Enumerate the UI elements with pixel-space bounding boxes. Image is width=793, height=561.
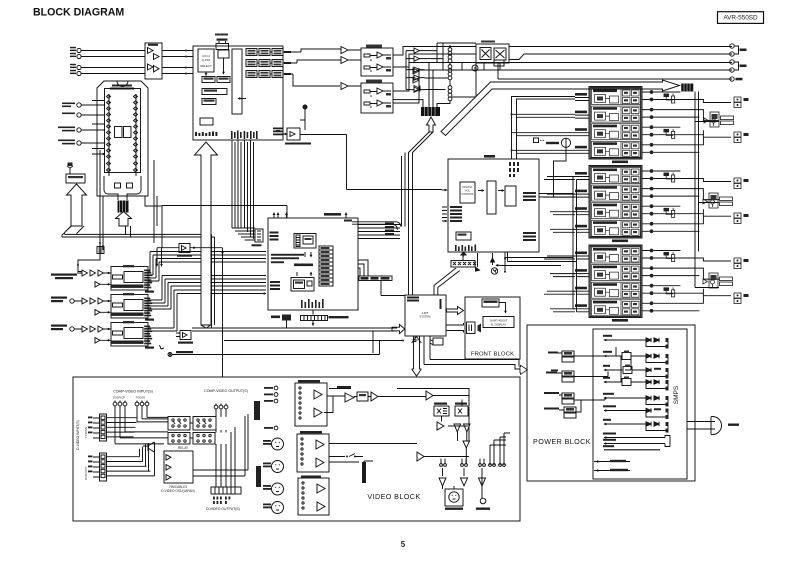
selector right pin column bbox=[134, 94, 138, 176]
buffer triangle B4 bbox=[414, 48, 420, 53]
block B label above bbox=[324, 213, 341, 216]
grid output labels bbox=[284, 51, 291, 75]
wire mid vertical x223 bbox=[222, 252, 224, 377]
amp row SBL bbox=[592, 185, 641, 201]
DIR row1 box bbox=[107, 265, 152, 290]
block B register strip bbox=[319, 246, 333, 286]
block A outline U-ADC bbox=[193, 46, 283, 140]
video wires switch bbox=[329, 454, 373, 484]
diode D1 bbox=[413, 68, 419, 74]
amp row D bbox=[592, 300, 641, 316]
connector into block B left bbox=[252, 229, 264, 246]
input jack J2 bbox=[77, 54, 81, 58]
block C top-right pin text bbox=[509, 162, 519, 177]
driver box D2 bbox=[455, 403, 468, 417]
hollow arrow up into CN-A bbox=[427, 117, 436, 132]
small box near TP1 bbox=[494, 60, 504, 66]
opamp box U2A bbox=[361, 45, 393, 77]
block B left pin labels top bbox=[270, 232, 279, 241]
svg-text:D-VIDEO INPUT(S): D-VIDEO INPUT(S) bbox=[76, 420, 80, 450]
transformer T2 bbox=[546, 371, 608, 382]
buffer triangle V3 bbox=[371, 392, 378, 401]
svg-text:POWER BLOCK: POWER BLOCK bbox=[533, 437, 591, 446]
rail drops to relays bbox=[695, 122, 719, 288]
inverted triangle T5 bbox=[439, 478, 446, 486]
wire rec line 5 bbox=[429, 63, 732, 108]
selector jack wires bbox=[81, 101, 105, 155]
DIR row3 label bbox=[51, 325, 67, 331]
wire rec line 2 bbox=[393, 54, 732, 67]
group1 feed stubs bbox=[575, 93, 589, 153]
group3 RC network a bbox=[664, 252, 675, 262]
d-video switch captions bbox=[161, 485, 195, 493]
DIR row2 jack bbox=[70, 299, 74, 303]
d-video output connector bbox=[211, 487, 241, 504]
group1 RC network b bbox=[664, 129, 675, 139]
smps rail +AUDIO bbox=[603, 405, 669, 419]
bass box with triangle bbox=[176, 331, 193, 344]
video distributor box 3 bbox=[298, 476, 329, 516]
bus arrow2 tail bbox=[126, 226, 131, 237]
sub block row1a bbox=[202, 77, 215, 83]
A to D sub block bbox=[198, 49, 214, 72]
delay box V2 bbox=[357, 392, 368, 401]
speaker terminal A bbox=[734, 258, 749, 269]
input jack J3 bbox=[77, 65, 81, 69]
wires buffer to DSP-A bbox=[162, 51, 193, 74]
amp row SR bbox=[592, 141, 641, 157]
power pack box bbox=[66, 163, 85, 184]
s-video out label vertical bbox=[362, 462, 366, 483]
group2 out wires bbox=[653, 171, 731, 231]
svg-text:VOL: VOL bbox=[465, 189, 471, 193]
svg-text:COMP-VIDEO OUTPUT(S): COMP-VIDEO OUTPUT(S) bbox=[204, 389, 248, 393]
power block edge labels bbox=[551, 352, 558, 372]
smps rail FL+5 bbox=[603, 433, 670, 447]
block C right pin labels upper bbox=[523, 192, 536, 201]
group2 RC network b bbox=[664, 208, 675, 218]
smps rail FL-5 bbox=[603, 439, 670, 447]
comp out jacks right bbox=[264, 386, 278, 403]
DIR row2 box bbox=[107, 293, 152, 318]
block A corner pin labels bbox=[273, 128, 283, 136]
dark label video out 1 bbox=[254, 401, 260, 420]
caption dvd/vcp tv/dss bbox=[113, 396, 145, 400]
video wires to monitor bbox=[443, 433, 511, 498]
smps power sw line 1 bbox=[594, 460, 630, 462]
volume knob VR1 bbox=[534, 138, 571, 197]
switch matrix box 4 bbox=[193, 433, 215, 445]
selector left pin column bbox=[107, 94, 111, 176]
wire buffer feeds bbox=[406, 51, 425, 90]
smps rail +5VD bbox=[603, 419, 669, 433]
svg-text:DVD/VCP: DVD/VCP bbox=[84, 467, 88, 480]
bus block C to system micro diagonal bbox=[434, 268, 460, 295]
buffer triangle B5 bbox=[414, 56, 420, 61]
block C left input bus labels bbox=[442, 206, 462, 222]
line y205 to block B bbox=[162, 206, 287, 219]
input jack J4 bbox=[77, 71, 81, 75]
selector outline U-SEL bbox=[97, 81, 148, 196]
wire input lines to buffer amp bbox=[81, 51, 145, 74]
i2c connector bar bbox=[359, 276, 392, 281]
inverted triangle T6 bbox=[461, 478, 468, 486]
rear jack pair brackets bbox=[735, 46, 739, 70]
group2 feed stubs bbox=[573, 172, 589, 232]
black connector CN-A top-left of bus bbox=[421, 107, 440, 116]
video block frame bbox=[73, 377, 520, 521]
hollow arrow up 2 bbox=[116, 212, 132, 227]
wire into CN-A from left bbox=[393, 100, 450, 107]
video test wire drops bbox=[441, 459, 504, 464]
input jack J1 bbox=[77, 48, 81, 52]
group1 label bbox=[612, 161, 628, 164]
DIR row2 label bbox=[51, 297, 67, 303]
amp row A bbox=[592, 247, 641, 263]
DIR row3 jack bbox=[70, 327, 74, 331]
svg-text:BLOCK DIAGRAM: BLOCK DIAGRAM bbox=[33, 7, 124, 19]
group2 label bbox=[612, 240, 628, 243]
speaker terminal CT bbox=[734, 178, 749, 189]
group3 out wires bbox=[653, 251, 731, 311]
wire TB2 bbox=[157, 248, 223, 264]
svg-text:RELAY: RELAY bbox=[178, 446, 189, 450]
thr bass box TB2 bbox=[177, 244, 192, 257]
relay module RY3 bbox=[703, 273, 733, 288]
rear jack labels bbox=[736, 49, 747, 81]
group3 feed stubs bbox=[573, 252, 589, 312]
amp row CT bbox=[592, 168, 641, 184]
block B up-down arrows bbox=[305, 252, 311, 257]
ground symbol below control bbox=[413, 336, 418, 342]
speaker terminal B bbox=[734, 293, 749, 304]
svg-text:FRONT BLOCK: FRONT BLOCK bbox=[471, 352, 514, 358]
rear jack circles bbox=[730, 44, 734, 48]
control block U-SYS bbox=[405, 295, 446, 336]
bus stub block B top to rail A bbox=[352, 222, 401, 230]
s-video jack SV3 bbox=[263, 483, 284, 495]
bus control to front display bbox=[447, 322, 482, 334]
speaker terminal FR bbox=[734, 132, 749, 143]
DIR row1 wires bbox=[77, 273, 111, 284]
selector middle boxes bbox=[115, 127, 133, 189]
block B top stubs bbox=[273, 212, 348, 218]
block C bottom connector bar bbox=[451, 261, 476, 268]
jack circle TP1 bbox=[472, 65, 478, 71]
svg-text:Q-PAT: Q-PAT bbox=[202, 58, 211, 62]
s-video jack SV1 bbox=[263, 438, 284, 450]
up-down arrow to connector bar bbox=[312, 310, 314, 326]
coil L2 bbox=[448, 65, 452, 83]
feed bus block C top to group1 bbox=[512, 96, 517, 159]
big hollow arrow under block A bbox=[195, 142, 218, 325]
svg-text:VIDEO BLOCK: VIDEO BLOCK bbox=[367, 492, 420, 501]
buffer triangle B8 bbox=[414, 87, 420, 92]
feed bus block C right to groups 2-3 bbox=[500, 177, 577, 312]
transistor Q-V1 bbox=[143, 442, 154, 452]
buffer triangle B1 bbox=[341, 47, 348, 54]
DIR row1 label bbox=[51, 274, 77, 280]
group1 RC network a bbox=[664, 94, 675, 104]
bus CN-A down to left rail bbox=[409, 132, 434, 295]
group3 output jacks bbox=[650, 249, 654, 313]
transformer T4 bbox=[544, 400, 581, 418]
b-video out label bbox=[337, 386, 351, 388]
group3 RC network b bbox=[664, 287, 675, 297]
amp group2 frame bbox=[589, 166, 642, 239]
bundle bends into connector bbox=[232, 228, 255, 240]
selector to blockA verticals bbox=[100, 150, 157, 260]
smps rail +B2 bbox=[603, 377, 669, 391]
block B bottom pin marks bbox=[301, 299, 324, 308]
svg-text:COMP-VIDEO INPUT(S): COMP-VIDEO INPUT(S) bbox=[113, 390, 153, 394]
selector inner chip bbox=[105, 89, 141, 173]
block B right out lines to DSP-C bbox=[358, 225, 400, 239]
wire bass bus diagonal bbox=[201, 325, 211, 328]
smps rail +9V bbox=[603, 351, 669, 365]
wire i2c bar down bbox=[381, 281, 405, 296]
svg-text:TV/DSS: TV/DSS bbox=[84, 427, 88, 438]
video output wires bbox=[216, 409, 235, 487]
bus arrow into CN-SP bbox=[441, 80, 680, 136]
sub block row1b bbox=[217, 77, 230, 83]
amp group1 frame bbox=[589, 87, 642, 160]
block C outline U-VOL bbox=[448, 159, 539, 252]
wire rec line 1 bbox=[393, 47, 732, 56]
monitor out jack bbox=[445, 489, 463, 510]
block C bottom pin marks bbox=[455, 245, 476, 252]
block B dark bar bbox=[294, 264, 313, 267]
block C right pin labels lower bbox=[523, 232, 536, 241]
hollow arrow up 1 bbox=[67, 184, 87, 226]
feed branches group2 bbox=[544, 177, 575, 233]
arrow bar to block C bbox=[461, 252, 466, 260]
DIR row2 wires bbox=[74, 301, 111, 312]
SRC tall block bbox=[232, 49, 242, 114]
block C arrow 2 bbox=[498, 190, 504, 192]
video input wires bbox=[115, 406, 168, 444]
bent arrow micro to display bbox=[499, 303, 506, 314]
svg-text:SMPS: SMPS bbox=[673, 385, 680, 404]
block B left pin labels middle bbox=[270, 254, 304, 290]
wire x100 to DIR rows bbox=[78, 226, 103, 272]
amp row SL bbox=[592, 124, 641, 140]
inverted triangle T2 bbox=[464, 424, 471, 432]
selector notch bbox=[117, 81, 128, 87]
jack labels bbox=[70, 47, 76, 74]
svg-text:4-BIT: 4-BIT bbox=[422, 311, 429, 315]
DIR row2 i2c label bbox=[145, 319, 154, 321]
block B bottom connector bar bbox=[301, 316, 349, 321]
IR remote sensor bbox=[430, 338, 443, 345]
d-video switch box bbox=[164, 451, 193, 483]
svg-text:CONTROL: CONTROL bbox=[461, 192, 474, 196]
diode D2 bbox=[413, 77, 419, 83]
DIR row1 buffers bbox=[82, 270, 104, 287]
inverted triangle T4 bbox=[463, 441, 470, 448]
svg-text:DIGITAL: DIGITAL bbox=[463, 185, 473, 189]
block B sub box lower bbox=[291, 278, 314, 292]
video distributor box 1 bbox=[295, 380, 327, 426]
DIR output vertical bus to DSP bbox=[148, 252, 177, 332]
block C sub box 1 bbox=[460, 182, 475, 203]
group2 RC network a bbox=[664, 173, 675, 183]
front micro box bbox=[482, 299, 499, 307]
block B below connector small bbox=[271, 315, 291, 329]
FL display box bbox=[483, 317, 514, 328]
DIR row3 box bbox=[107, 321, 152, 346]
wires top-right selector bbox=[425, 54, 477, 97]
arrow into SRC bbox=[238, 98, 246, 100]
coil L1 bbox=[448, 45, 452, 65]
buffer triangle B3 bbox=[341, 83, 348, 90]
selector bottom U path bbox=[104, 176, 141, 200]
control block top labels bbox=[407, 297, 419, 302]
control block right-edge vertical label bbox=[440, 299, 442, 309]
DIR row3 buffers bbox=[82, 326, 104, 343]
block C label bbox=[484, 155, 495, 158]
group1 output jacks bbox=[650, 90, 654, 154]
block C sub box 3 bbox=[505, 186, 516, 206]
switch matrix box 2 bbox=[193, 417, 216, 431]
speaker terminal SB bbox=[734, 213, 749, 224]
selector input jacks bbox=[77, 103, 81, 107]
inverted triangle T7 bbox=[479, 478, 486, 486]
amp row B bbox=[592, 265, 641, 281]
DIR row1 i2c label bbox=[145, 291, 154, 293]
front block frame bbox=[465, 297, 520, 359]
selector jack labels bbox=[58, 103, 75, 145]
transformer T3 bbox=[544, 392, 605, 404]
opamp box U2B bbox=[361, 80, 393, 114]
svg-text:DVD/VCP: DVD/VCP bbox=[113, 396, 125, 400]
svg-text:TV/DSS: TV/DSS bbox=[136, 396, 146, 400]
transformer T1 bbox=[548, 347, 616, 362]
svg-text:SELECT: SELECT bbox=[200, 64, 212, 68]
clock sub block bbox=[218, 50, 229, 58]
switch matrix box 3 bbox=[168, 433, 190, 445]
smps rail +12V bbox=[603, 393, 669, 407]
switch matrix box 1 bbox=[168, 417, 190, 431]
bus rail y235 bbox=[62, 226, 215, 328]
block A bottom pin labels bbox=[195, 132, 217, 137]
matrix link wires bbox=[190, 414, 248, 476]
vertical lines bundle block A to block B bbox=[232, 140, 254, 239]
power block frame bbox=[527, 325, 695, 481]
group1 out wires bbox=[653, 92, 731, 152]
coil L3 bbox=[448, 82, 452, 103]
smps rail power gnd bbox=[603, 445, 660, 450]
smps frame bbox=[593, 329, 687, 479]
sub block row3 bbox=[202, 99, 216, 105]
group3 label bbox=[612, 319, 628, 322]
block A bottom tick pins bbox=[231, 131, 258, 140]
amp row FL bbox=[592, 89, 641, 105]
smps rail +B1 bbox=[603, 365, 669, 379]
smps rail +5V bbox=[603, 335, 669, 349]
wires buffers to opamp U2A bbox=[348, 50, 361, 86]
block B top-right pin label bbox=[344, 220, 352, 222]
svg-text:D-VIDEO OUTPUT(S): D-VIDEO OUTPUT(S) bbox=[206, 507, 240, 511]
buffer triangle V4 bbox=[426, 391, 433, 400]
connector small on x100 bbox=[97, 247, 104, 254]
black connector CN-SP bbox=[681, 84, 694, 92]
wire rec line 3 bbox=[393, 63, 732, 92]
d-video input connector 1 bbox=[88, 414, 107, 441]
right triangle T3 bbox=[437, 422, 444, 430]
aux jack bbox=[264, 426, 278, 430]
svg-text:5: 5 bbox=[401, 540, 406, 549]
relay box K1 bbox=[476, 41, 509, 71]
buffer triangle V5 bbox=[417, 452, 424, 461]
bus control to power block bbox=[424, 336, 520, 369]
amp group3 frame bbox=[589, 245, 642, 318]
relay module RY1 bbox=[704, 112, 734, 127]
svg-text:FL DISPLAY: FL DISPLAY bbox=[491, 323, 507, 327]
vertical bus control to video block bbox=[412, 336, 422, 376]
DIR row2 buffers bbox=[82, 298, 104, 315]
group2 output jacks bbox=[650, 169, 654, 233]
crystal X1 above block A bbox=[215, 34, 229, 51]
video out jack bbox=[476, 498, 490, 510]
s-video jack SV2 bbox=[263, 461, 284, 473]
buffer triangle B2 bbox=[341, 57, 348, 64]
TX optical box bbox=[276, 105, 311, 145]
driver box D1 bbox=[434, 403, 449, 417]
audio control bus to system micro bbox=[192, 328, 397, 331]
d-video input connector 2 bbox=[88, 453, 107, 481]
feed branches group3 bbox=[544, 256, 575, 312]
comp video input jacks bbox=[113, 401, 149, 406]
inverted triangle T1 bbox=[454, 424, 461, 432]
transistor cluster below block C bbox=[476, 253, 508, 275]
ac power plug bbox=[687, 416, 739, 434]
wire from selector bottom to bass line bbox=[145, 196, 162, 206]
op amp sub block bbox=[200, 118, 213, 125]
DIR row3 i2c label bbox=[145, 347, 154, 349]
feed branches group1 bbox=[512, 97, 576, 154]
amp row FR bbox=[592, 106, 641, 122]
crystal X2 bbox=[118, 201, 129, 213]
block B connector sub box bbox=[294, 234, 316, 249]
wire rec line 4 bbox=[393, 70, 732, 103]
smps rail chain link bbox=[621, 356, 631, 382]
svg-text:D-VIDEO OSL/(JAPAN): D-VIDEO OSL/(JAPAN) bbox=[161, 489, 195, 493]
wire CN-SP down feeds bbox=[695, 92, 699, 288]
block C left input arrow bbox=[442, 189, 447, 191]
speaker terminal FL bbox=[734, 97, 749, 108]
amp row SBR bbox=[592, 203, 641, 219]
wire TX to block C bbox=[300, 135, 442, 190]
block B outline U-DSP bbox=[268, 218, 358, 310]
buffer triangle V1 bbox=[345, 393, 354, 402]
model label box AVR-550SD bbox=[718, 12, 764, 24]
test point jacks bbox=[440, 464, 506, 467]
buffer amp box U-BUF bbox=[145, 43, 162, 79]
dark label video out 2 bbox=[256, 466, 261, 487]
hollow arrow control to front block bbox=[447, 307, 464, 315]
selector label bbox=[110, 85, 134, 90]
SRC output grid 3x3 boxes bbox=[246, 49, 283, 78]
wire grid to buffers bbox=[283, 52, 301, 74]
mute line and label bbox=[160, 331, 405, 357]
smps power sw line 2 bbox=[594, 469, 630, 471]
comp video output jacks bbox=[214, 404, 228, 409]
diode D3 bbox=[414, 86, 420, 92]
block C small sub box 4 bbox=[456, 232, 471, 240]
amp row C bbox=[592, 282, 641, 298]
video wires long horiz bbox=[324, 389, 469, 463]
